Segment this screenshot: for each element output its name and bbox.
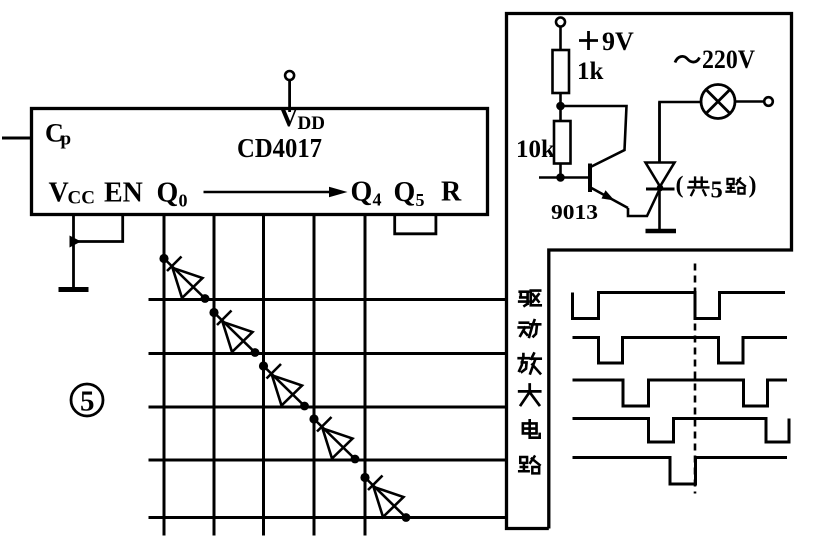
label ~220V xyxy=(675,45,755,74)
wire: lamp to terminal xyxy=(735,100,764,103)
svg-text:R: R xyxy=(441,177,462,208)
wire: row 5 xyxy=(149,516,507,519)
node A junction xyxy=(556,102,565,111)
wire: Q5-R link xyxy=(395,215,436,234)
wire: row 1 xyxy=(149,298,507,301)
wire: terminal to R1 xyxy=(559,27,562,51)
svg-text:CD4017: CD4017 xyxy=(237,133,322,163)
diode D1 xyxy=(159,254,209,303)
label: 驱动放大电路 vertical xyxy=(519,291,541,474)
node: VDD terminal xyxy=(285,71,294,80)
svg-text:10k: 10k xyxy=(516,136,555,163)
svg-text:9V: 9V xyxy=(602,27,634,56)
wire: column Q0 xyxy=(163,214,166,536)
wire: column Q1 xyxy=(213,214,216,536)
svg-text:5: 5 xyxy=(416,190,425,210)
wire: emitter to gate xyxy=(628,190,660,217)
resistor R2 10k xyxy=(554,121,571,164)
node: VCC-EN junction xyxy=(70,236,82,248)
wire: row 3 xyxy=(149,406,507,409)
label +9V xyxy=(579,27,634,56)
diode D4 xyxy=(309,414,359,463)
pin label VDD xyxy=(279,102,325,134)
wire: Cp input xyxy=(2,137,31,140)
svg-text:5: 5 xyxy=(711,177,723,204)
svg-text:DD: DD xyxy=(298,113,325,134)
pin label VCC xyxy=(49,178,95,209)
svg-text:V: V xyxy=(49,178,69,209)
pin label Q0 xyxy=(157,178,188,211)
node: 220V terminal xyxy=(764,97,773,106)
svg-text:220V: 220V xyxy=(702,45,755,74)
svg-text:4: 4 xyxy=(373,190,382,210)
resistor R1 1k xyxy=(553,50,570,93)
diode D2 xyxy=(209,308,259,357)
thyristor SCR xyxy=(646,102,677,231)
ground xyxy=(59,287,89,292)
svg-text:(: ( xyxy=(676,173,684,199)
svg-text:0: 0 xyxy=(179,191,188,211)
lamp xyxy=(701,85,735,119)
node B junction xyxy=(556,173,565,182)
wire: row 2 xyxy=(149,352,507,355)
waveform Q1 xyxy=(573,338,788,364)
pin label Cp xyxy=(45,119,71,150)
wire: base input xyxy=(539,176,589,179)
waveform Q0 xyxy=(573,293,786,319)
wire: R1 to node A xyxy=(559,93,562,121)
svg-text:1k: 1k xyxy=(577,58,604,85)
svg-text:p: p xyxy=(61,129,72,150)
wire: node A to collector xyxy=(561,106,627,167)
waveform Q4 xyxy=(573,458,788,485)
wire: R2 to base node xyxy=(559,164,562,178)
svg-text:CC: CC xyxy=(68,188,95,209)
wire: EN pin stub xyxy=(74,214,123,242)
pin label Q5 xyxy=(394,177,425,210)
label (共5路) xyxy=(676,173,757,204)
dashed timing line xyxy=(694,264,697,494)
diode D3 xyxy=(259,361,309,410)
wire: row 4 xyxy=(149,459,507,462)
node: +9V terminal xyxy=(556,18,565,27)
svg-text:5: 5 xyxy=(80,386,95,418)
svg-text:Q: Q xyxy=(351,177,373,208)
transistor Q1 9013 xyxy=(590,164,628,209)
svg-text:): ) xyxy=(749,173,757,199)
wire: VDD terminal to IC xyxy=(288,80,291,112)
waveform Q2 xyxy=(573,380,788,406)
wire: SCR anode to lamp xyxy=(660,102,702,163)
wire: column Q2 xyxy=(262,214,265,536)
wire: Q0 to Q4 arrow xyxy=(204,187,348,197)
driver box outline xyxy=(507,14,792,529)
wire: column Q4 xyxy=(364,214,367,536)
IC U1 CD4017 box xyxy=(32,109,488,215)
diode D5 xyxy=(360,473,410,522)
waveform Q3 xyxy=(573,419,790,443)
wire: column Q3 xyxy=(313,214,316,536)
svg-text:Q: Q xyxy=(394,177,416,208)
svg-text:9013: 9013 xyxy=(551,200,598,224)
wire: VCC pin stub xyxy=(72,214,75,242)
wire: VCC to ground xyxy=(72,242,75,289)
figure number 5 xyxy=(71,384,103,418)
svg-text:EN: EN xyxy=(104,178,143,209)
svg-text:V: V xyxy=(279,102,299,132)
svg-text:Q: Q xyxy=(157,178,179,209)
pin label Q4 xyxy=(351,177,382,210)
